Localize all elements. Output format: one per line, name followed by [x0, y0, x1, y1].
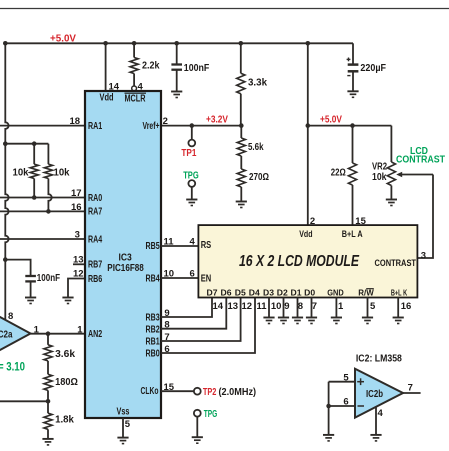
svg-text:15: 15: [164, 382, 175, 393]
svg-text:RB0: RB0: [146, 349, 161, 360]
svg-text:GND: GND: [327, 287, 344, 297]
svg-text:5: 5: [125, 419, 131, 430]
svg-text:IC3: IC3: [119, 252, 133, 263]
svg-text:5: 5: [343, 372, 349, 383]
svg-text:TP1: TP1: [181, 148, 196, 159]
svg-text:+3.2V: +3.2V: [206, 115, 228, 126]
svg-text:(2.0MHz): (2.0MHz): [219, 387, 257, 398]
svg-text:10k: 10k: [372, 172, 387, 183]
svg-text:2.2k: 2.2k: [142, 61, 160, 72]
svg-text:Vdd: Vdd: [299, 229, 312, 239]
svg-text:4: 4: [190, 236, 196, 247]
svg-text:17: 17: [71, 188, 82, 199]
svg-text:AN2: AN2: [88, 329, 103, 340]
svg-text:CONTRAST: CONTRAST: [396, 155, 445, 166]
svg-text:TPG: TPG: [204, 409, 218, 420]
svg-text:EN: EN: [201, 273, 212, 284]
svg-text:IC2b: IC2b: [366, 389, 383, 400]
svg-text:= 3.10: = 3.10: [0, 362, 25, 374]
svg-text:9: 9: [284, 301, 289, 312]
svg-text:10k: 10k: [54, 168, 70, 179]
svg-text:11: 11: [164, 236, 175, 247]
svg-text:D2: D2: [277, 287, 288, 297]
svg-text:22Ω: 22Ω: [331, 167, 346, 178]
svg-text:1: 1: [77, 324, 83, 335]
svg-text:D3: D3: [263, 287, 274, 297]
svg-text:6: 6: [343, 397, 348, 408]
svg-text:PIC16F88: PIC16F88: [107, 263, 144, 274]
svg-text:D4: D4: [249, 287, 260, 297]
svg-text:Vdd: Vdd: [100, 93, 114, 104]
svg-text:D5: D5: [235, 287, 246, 297]
svg-text:1: 1: [338, 301, 344, 312]
svg-text:16: 16: [401, 301, 412, 312]
svg-text:TP2: TP2: [203, 387, 217, 398]
svg-text:CONTRAST: CONTRAST: [375, 258, 417, 268]
svg-text:12: 12: [73, 269, 84, 280]
svg-text:3: 3: [421, 251, 426, 262]
svg-text:RA7: RA7: [88, 207, 103, 218]
svg-text:13: 13: [228, 301, 239, 312]
svg-text:180Ω: 180Ω: [55, 377, 78, 388]
svg-text:Vref+: Vref+: [143, 121, 160, 132]
svg-text:B+L A: B+L A: [342, 229, 363, 239]
svg-text:11: 11: [257, 301, 268, 312]
svg-text:+5.0V: +5.0V: [320, 115, 342, 126]
svg-text:5.6k: 5.6k: [248, 142, 264, 153]
svg-text:D7: D7: [207, 287, 218, 297]
svg-text:RA0: RA0: [88, 193, 103, 204]
svg-text:RB2: RB2: [146, 324, 161, 335]
svg-text:6: 6: [190, 269, 195, 280]
svg-text:8: 8: [298, 301, 303, 312]
svg-text:7: 7: [164, 332, 169, 343]
svg-text:RA1: RA1: [88, 121, 103, 132]
svg-text:IC2a: IC2a: [0, 330, 13, 341]
svg-text:10k: 10k: [13, 168, 29, 179]
svg-text:7: 7: [312, 301, 317, 312]
svg-text:MCLR: MCLR: [125, 93, 147, 104]
svg-text:100nF: 100nF: [184, 63, 210, 74]
svg-text:270Ω: 270Ω: [249, 172, 269, 183]
svg-text:RB3: RB3: [146, 313, 161, 324]
svg-text:10: 10: [271, 301, 282, 312]
svg-text:D0: D0: [304, 287, 315, 297]
svg-text:16: 16: [71, 202, 82, 213]
svg-text:2: 2: [310, 216, 315, 227]
svg-text:D1: D1: [291, 287, 302, 297]
svg-text:RB1: RB1: [146, 337, 161, 348]
svg-text:5: 5: [370, 301, 376, 312]
svg-text:10: 10: [164, 269, 175, 280]
svg-text:RB4: RB4: [146, 274, 161, 285]
svg-text:3.6k: 3.6k: [55, 349, 75, 360]
svg-text:14: 14: [213, 301, 224, 312]
svg-text:13: 13: [73, 254, 84, 265]
svg-text:3: 3: [75, 230, 80, 241]
svg-text:6: 6: [164, 344, 169, 355]
svg-text:CLKo: CLKo: [141, 386, 159, 397]
svg-text:4: 4: [378, 408, 384, 419]
svg-text:3.3k: 3.3k: [248, 77, 267, 88]
svg-text:RB5: RB5: [146, 241, 161, 252]
svg-text:8: 8: [164, 320, 169, 331]
svg-text:Vss: Vss: [117, 407, 130, 418]
svg-text:15: 15: [355, 216, 366, 227]
svg-text:7: 7: [408, 382, 413, 393]
svg-text:100nF: 100nF: [37, 273, 60, 284]
svg-text:2: 2: [163, 116, 168, 127]
svg-text:16 X 2 LCD MODULE: 16 X 2 LCD MODULE: [239, 253, 360, 270]
svg-text:12: 12: [242, 301, 253, 312]
svg-text:B+L K: B+L K: [391, 287, 408, 297]
svg-text:8: 8: [8, 311, 13, 322]
svg-text:RB6: RB6: [88, 274, 103, 285]
svg-text:RB7: RB7: [88, 260, 103, 271]
svg-text:9: 9: [164, 308, 169, 319]
svg-text:D6: D6: [221, 287, 232, 297]
svg-text:1.8k: 1.8k: [55, 415, 74, 426]
svg-text:RS: RS: [201, 240, 212, 251]
svg-text:RA4: RA4: [88, 234, 103, 245]
svg-text:IC2: LM358: IC2: LM358: [356, 353, 402, 364]
svg-text:220µF: 220µF: [360, 63, 386, 74]
svg-text:1: 1: [34, 324, 40, 335]
svg-text:+5.0V: +5.0V: [50, 33, 76, 44]
svg-text:18: 18: [70, 116, 81, 127]
svg-text:VR2: VR2: [372, 161, 387, 172]
